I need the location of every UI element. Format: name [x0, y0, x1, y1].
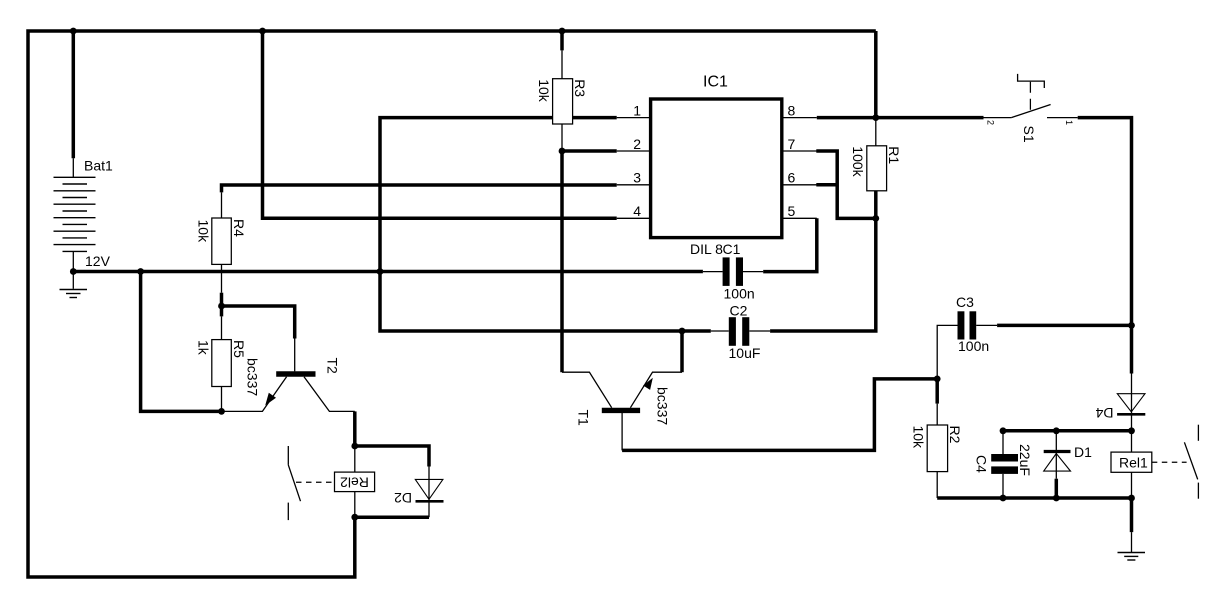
svg-text:22uF: 22uF	[1017, 444, 1033, 476]
svg-text:R3: R3	[572, 79, 588, 97]
svg-text:D4: D4	[1095, 405, 1113, 421]
svg-text:7: 7	[788, 136, 796, 152]
svg-text:10k: 10k	[911, 426, 927, 450]
svg-text:R5: R5	[231, 340, 247, 358]
svg-text:10k: 10k	[195, 220, 211, 244]
svg-text:100k: 100k	[850, 146, 866, 177]
svg-text:3: 3	[633, 170, 641, 186]
svg-text:C1: C1	[723, 241, 741, 257]
svg-text:1k: 1k	[195, 340, 211, 356]
svg-text:R2: R2	[947, 426, 963, 444]
svg-text:DIL 8: DIL 8	[690, 241, 723, 257]
svg-text:1: 1	[633, 103, 641, 119]
svg-text:10uF: 10uF	[729, 345, 761, 361]
svg-text:1: 1	[1064, 120, 1074, 125]
svg-text:T1: T1	[576, 410, 592, 427]
svg-text:R1: R1	[886, 146, 902, 164]
svg-text:6: 6	[788, 170, 796, 186]
svg-text:bc337: bc337	[244, 358, 260, 396]
svg-text:100n: 100n	[958, 338, 989, 354]
svg-text:C3: C3	[956, 294, 974, 310]
svg-text:Bat1: Bat1	[84, 158, 113, 174]
svg-text:12V: 12V	[85, 253, 111, 269]
svg-text:D2: D2	[394, 490, 412, 506]
svg-text:4: 4	[633, 203, 641, 219]
svg-text:C4: C4	[973, 455, 989, 473]
svg-text:D1: D1	[1074, 444, 1092, 460]
svg-text:Rel2: Rel2	[340, 475, 369, 491]
svg-text:bc337: bc337	[655, 387, 671, 425]
svg-text:C2: C2	[730, 303, 748, 319]
svg-text:S1: S1	[1021, 126, 1037, 143]
svg-text:10k: 10k	[536, 79, 552, 103]
svg-text:100n: 100n	[724, 285, 755, 301]
svg-text:2: 2	[986, 120, 996, 125]
svg-text:T2: T2	[325, 358, 341, 375]
svg-text:2: 2	[633, 136, 641, 152]
svg-text:5: 5	[788, 203, 796, 219]
svg-text:Rel1: Rel1	[1119, 455, 1148, 471]
svg-text:8: 8	[788, 103, 796, 119]
svg-text:R4: R4	[231, 219, 247, 237]
svg-text:IC1: IC1	[703, 74, 728, 91]
